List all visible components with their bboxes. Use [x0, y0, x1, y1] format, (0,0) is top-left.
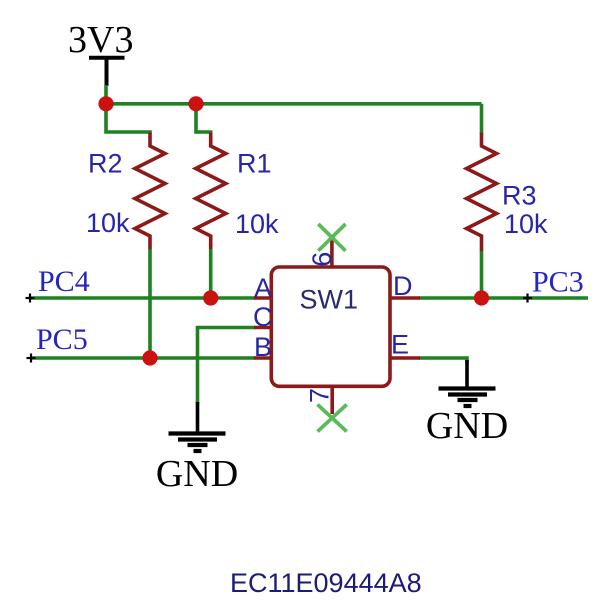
junction dot R2/PC5 [142, 350, 157, 365]
junction dot R3/PC3 [474, 290, 489, 305]
wire: E pin to ground [419, 358, 467, 363]
wire: C pin to ground [198, 328, 256, 405]
wire: power stem to rail [104, 85, 108, 104]
svg-text:C: C [253, 302, 273, 332]
wire: R3 bottom to PC3 net [480, 251, 484, 298]
svg-text:A: A [254, 273, 272, 303]
no-connect X on pin 7 [318, 405, 347, 432]
pin 6 stub [330, 239, 334, 267]
pin E stub [390, 356, 420, 360]
wire: R2 bottom to PC5 net [148, 249, 152, 358]
pin end marker PC3 [523, 294, 532, 303]
switch SW1 body [271, 267, 390, 386]
svg-text:R3: R3 [502, 181, 537, 211]
svg-text:B: B [254, 332, 272, 362]
svg-text:3V3: 3V3 [68, 19, 133, 61]
svg-text:R2: R2 [88, 149, 123, 179]
svg-text:GND: GND [156, 453, 238, 495]
junction dot at rail/R1 [188, 96, 203, 111]
wire: D pin to PC3 net [419, 296, 588, 300]
resistor R3 [467, 133, 497, 252]
svg-text:D: D [393, 271, 413, 301]
resistor R1 [196, 133, 226, 250]
resistor R2 [135, 133, 165, 250]
wire: PC4 net [30, 296, 255, 300]
svg-text:10k: 10k [504, 209, 548, 239]
svg-text:EC11E09444A8: EC11E09444A8 [230, 568, 422, 598]
ground symbol right (E pin) [465, 360, 469, 387]
svg-text:PC4: PC4 [38, 265, 90, 298]
junction dot R1/PC4 [203, 290, 218, 305]
wire: R1 bottom to PC4 net [209, 249, 213, 298]
pin C stub [254, 326, 271, 330]
wire: R3 top connector [480, 104, 484, 134]
svg-text:PC5: PC5 [36, 323, 88, 356]
no-connect X on pin 6 [318, 224, 345, 251]
power symbol 3V3 bar [89, 58, 125, 86]
svg-text:PC3: PC3 [532, 265, 584, 298]
svg-text:10k: 10k [235, 209, 279, 239]
pin D stub [390, 296, 420, 300]
svg-text:SW1: SW1 [300, 285, 359, 315]
pin 7 stub [330, 386, 334, 414]
wire: R1 top connector [196, 104, 211, 134]
wire: top rail [106, 102, 482, 106]
pin B stub [254, 356, 271, 360]
wire: R2 top connector [106, 104, 150, 134]
svg-text:10k: 10k [86, 208, 130, 238]
pin end marker PC4 [26, 294, 35, 303]
svg-text:E: E [391, 330, 409, 360]
svg-text:R1: R1 [237, 149, 272, 179]
svg-text:GND: GND [426, 405, 508, 447]
pin A stub [254, 296, 271, 300]
pin end marker PC5 [27, 354, 36, 363]
svg-text:7: 7 [305, 388, 335, 403]
junction dot at 3V3/R2 [98, 96, 113, 111]
svg-text:6: 6 [307, 252, 337, 267]
wire: PC5 net [31, 356, 255, 360]
ground symbol left (C pin) [196, 402, 200, 432]
